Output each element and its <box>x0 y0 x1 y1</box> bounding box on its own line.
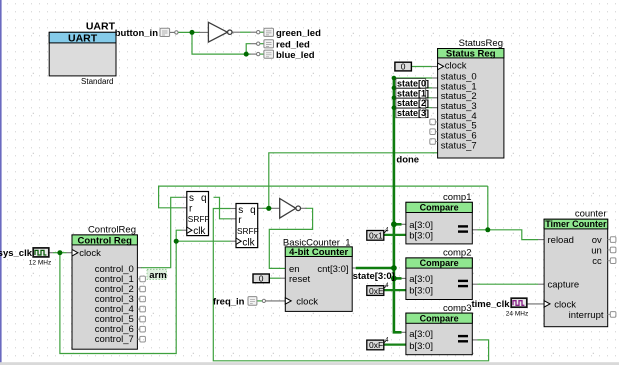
svg-text:SRFF: SRFF <box>237 226 259 236</box>
svg-text:clk: clk <box>242 237 255 248</box>
svg-text:0x1: 0x1 <box>369 231 383 241</box>
svg-text:UART: UART <box>86 21 116 33</box>
svg-text:a[3:0]: a[3:0] <box>409 329 433 340</box>
svg-text:clk: clk <box>193 226 206 237</box>
svg-text:counter: counter <box>575 209 607 220</box>
svg-text:b[3:0]: b[3:0] <box>409 341 433 352</box>
svg-text:arm: arm <box>149 270 166 281</box>
svg-text:StatusReg: StatusReg <box>459 38 503 49</box>
svg-text:24 MHz: 24 MHz <box>506 311 528 318</box>
svg-text:done: done <box>396 154 419 165</box>
svg-text:0xF: 0xF <box>369 340 383 350</box>
svg-text:Status Reg: Status Reg <box>446 49 496 60</box>
svg-text:time_clk: time_clk <box>471 299 510 310</box>
svg-text:Compare: Compare <box>420 258 459 268</box>
svg-text:reload: reload <box>548 235 574 246</box>
svg-text:0: 0 <box>401 62 406 72</box>
svg-text:comp1: comp1 <box>443 192 472 203</box>
svg-text:green_led: green_led <box>276 28 321 39</box>
svg-text:a[3:0]: a[3:0] <box>409 220 433 231</box>
svg-text:q: q <box>250 205 256 216</box>
svg-text:0xE: 0xE <box>369 286 384 296</box>
svg-text:comp3: comp3 <box>443 303 472 314</box>
svg-text:b[3:0]: b[3:0] <box>409 230 433 241</box>
svg-text:Control Reg: Control Reg <box>78 235 133 246</box>
svg-text:un: un <box>591 245 602 256</box>
svg-text:Standard: Standard <box>81 77 113 86</box>
svg-text:clock: clock <box>554 299 576 310</box>
svg-text:Compare: Compare <box>420 203 459 213</box>
svg-text:comp2: comp2 <box>443 248 472 259</box>
svg-text:control_7: control_7 <box>95 334 134 345</box>
svg-text:clock: clock <box>79 248 101 259</box>
svg-text:clock: clock <box>445 60 467 71</box>
svg-text:q: q <box>201 193 207 204</box>
svg-text:b[3:0]: b[3:0] <box>409 286 433 297</box>
svg-text:state[3:0]: state[3:0] <box>353 271 395 282</box>
svg-text:4: 4 <box>385 283 389 289</box>
svg-text:12 MHz: 12 MHz <box>29 259 51 266</box>
svg-text:interrupt: interrupt <box>569 310 604 321</box>
svg-text:UART: UART <box>68 33 98 45</box>
svg-text:4: 4 <box>385 337 389 343</box>
svg-text:ControlReg: ControlReg <box>88 225 136 236</box>
svg-text:a[3:0]: a[3:0] <box>409 274 433 285</box>
svg-text:blue_led: blue_led <box>276 50 315 61</box>
svg-text:cnt[3:0]: cnt[3:0] <box>317 264 348 275</box>
svg-text:4: 4 <box>385 228 389 234</box>
svg-text:SRFF: SRFF <box>188 214 210 224</box>
svg-text:button_in: button_in <box>115 28 158 39</box>
svg-text:0: 0 <box>259 273 264 283</box>
svg-text:freq_in: freq_in <box>213 296 245 307</box>
svg-text:Timer Counter: Timer Counter <box>545 219 607 229</box>
svg-text:Compare: Compare <box>420 313 459 323</box>
svg-text:clock: clock <box>296 297 318 308</box>
svg-text:capture: capture <box>548 280 580 291</box>
svg-text:state[1]: state[1] <box>397 88 429 98</box>
svg-text:state[2]: state[2] <box>397 98 429 108</box>
svg-text:state[0]: state[0] <box>397 78 429 88</box>
svg-text:reset: reset <box>289 274 310 285</box>
svg-text:sys_clk: sys_clk <box>0 248 33 259</box>
svg-text:cc: cc <box>592 256 602 267</box>
svg-text:4-bit Counter: 4-bit Counter <box>289 247 348 258</box>
svg-text:state[3]: state[3] <box>397 108 429 118</box>
svg-text:red_led: red_led <box>276 39 310 50</box>
svg-text:status_7: status_7 <box>441 140 477 151</box>
